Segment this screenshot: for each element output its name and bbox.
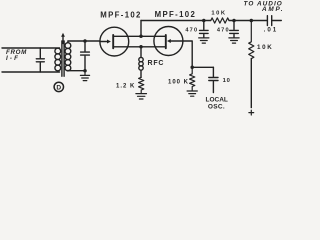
resistor R3 100K bbox=[190, 67, 195, 90]
svg-text:I-F: I-F bbox=[6, 55, 20, 62]
ground below C4 bbox=[229, 38, 239, 43]
transformer T1 secondary winding bbox=[65, 43, 71, 49]
node junction 470 cap 1 bbox=[202, 19, 206, 23]
wire to audio amp bbox=[272, 20, 282, 22]
wire source rail Q1-Q2 bbox=[113, 46, 166, 48]
transistor Q1 gate lead and arrow bbox=[100, 41, 107, 43]
resistor R1 10K horizontal bbox=[211, 18, 229, 23]
transistor Q1 MPF-102 circle bbox=[100, 27, 129, 56]
node junction 470 cap 2 bbox=[232, 19, 236, 23]
transformer T1 primary winding bbox=[55, 48, 61, 54]
capacitor C3 470pF bypass bbox=[200, 21, 209, 38]
svg-text:MPF-102: MPF-102 bbox=[100, 10, 142, 19]
figure label circle D bbox=[54, 82, 63, 91]
wire input top bbox=[2, 47, 60, 49]
wire drain up to supply rail bbox=[140, 21, 142, 37]
transistor Q2 gate lead and arrow bbox=[171, 40, 183, 42]
svg-text:.01: .01 bbox=[264, 27, 279, 34]
transistor Q2 MPF-102 circle bbox=[154, 27, 183, 56]
node junction source rail bbox=[139, 45, 143, 49]
capacitor C5 10pF local osc coupling bbox=[209, 67, 218, 92]
wire node to coupling cap bbox=[192, 66, 213, 68]
svg-text:10K: 10K bbox=[211, 11, 226, 17]
wire drain rail Q1-Q2 bbox=[113, 35, 166, 37]
svg-text:MPF-102: MPF-102 bbox=[155, 10, 197, 19]
svg-text:D: D bbox=[56, 84, 61, 91]
ground below R3 bbox=[187, 91, 197, 96]
svg-text:10: 10 bbox=[223, 78, 231, 84]
wire secondary bottom bbox=[68, 70, 85, 72]
node junction supply divider bbox=[250, 19, 254, 23]
wire gate Q2 to mixer node bbox=[183, 41, 192, 67]
svg-text:10K: 10K bbox=[257, 44, 273, 51]
node junction local osc bbox=[190, 66, 194, 70]
ground below R2 bbox=[136, 94, 147, 99]
capacitor C4 470pF bypass bbox=[230, 21, 239, 38]
wire secondary top to gate Q1 bbox=[68, 41, 100, 43]
wire input bottom bbox=[2, 71, 60, 73]
svg-text:LOCAL: LOCAL bbox=[206, 96, 228, 103]
svg-text:OSC.: OSC. bbox=[208, 103, 225, 110]
supply rail left segment bbox=[141, 20, 211, 22]
resistor R2 1.2K bbox=[139, 77, 144, 93]
capacitor C2 secondary bypass bbox=[81, 41, 90, 71]
node junction drain rail bbox=[139, 35, 143, 39]
transistor Q1 channel bar bbox=[112, 35, 114, 48]
transformer T1 tuning arrow bbox=[62, 36, 64, 44]
transformer T1 core bbox=[62, 41, 64, 76]
svg-text:RFC: RFC bbox=[148, 60, 165, 67]
capacitor C1 input tuning bbox=[36, 48, 44, 72]
wire to B+ bbox=[250, 59, 252, 108]
supply rail right segment bbox=[229, 20, 267, 22]
node junction capacitor-secondary bottom bbox=[83, 69, 87, 73]
svg-text:470: 470 bbox=[217, 27, 230, 33]
svg-text:100 K: 100 K bbox=[168, 80, 189, 86]
capacitor C6 .01 output coupling bbox=[267, 16, 271, 26]
svg-text:470: 470 bbox=[185, 27, 198, 33]
svg-text:AMP.: AMP. bbox=[261, 6, 284, 13]
node junction gate-capacitor bbox=[83, 39, 87, 43]
inductor RFC choke bbox=[140, 47, 142, 58]
ground below C2 bbox=[80, 71, 89, 81]
svg-text:1.2 K: 1.2 K bbox=[116, 83, 135, 89]
transistor Q2 channel bar bbox=[165, 35, 167, 48]
B+ plus symbol bbox=[249, 110, 254, 115]
ground below C3 bbox=[199, 38, 209, 43]
resistor R4 10K vertical bbox=[249, 21, 254, 59]
